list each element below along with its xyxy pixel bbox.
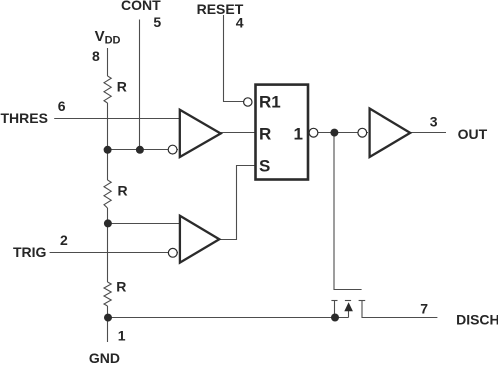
svg-text:R: R: [117, 79, 127, 95]
svg-text:R: R: [116, 279, 126, 295]
svg-text:3: 3: [430, 113, 438, 129]
svg-text:S: S: [259, 157, 270, 176]
svg-text:R1: R1: [259, 92, 281, 111]
svg-text:R: R: [118, 183, 128, 199]
svg-text:5: 5: [153, 14, 161, 30]
svg-text:R: R: [259, 125, 271, 144]
svg-text:8: 8: [92, 48, 100, 64]
svg-text:4: 4: [236, 14, 244, 30]
svg-text:TRIG: TRIG: [13, 244, 47, 260]
svg-text:1: 1: [118, 328, 126, 344]
svg-text:DD: DD: [105, 35, 121, 47]
svg-text:DISCH: DISCH: [456, 312, 498, 328]
svg-text:CONT: CONT: [121, 0, 161, 13]
svg-text:OUT: OUT: [458, 126, 488, 142]
svg-text:1: 1: [294, 125, 303, 144]
svg-text:GND: GND: [89, 350, 120, 365]
svg-text:THRES: THRES: [1, 110, 48, 126]
svg-text:2: 2: [60, 232, 68, 248]
svg-text:6: 6: [58, 98, 66, 114]
svg-text:7: 7: [420, 301, 428, 317]
svg-text:V: V: [95, 28, 105, 45]
